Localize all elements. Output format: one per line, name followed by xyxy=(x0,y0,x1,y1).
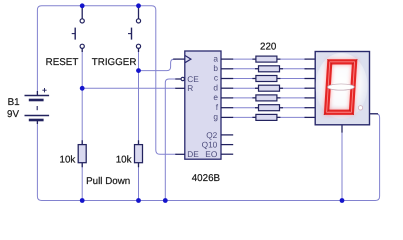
U1 pin stub Q2 xyxy=(221,134,233,136)
resistor R6 220 (line d) xyxy=(255,85,283,91)
junction V+ TRIGGER xyxy=(136,3,141,8)
resistor R9 220 (line g) xyxy=(252,114,280,120)
svg-text:b: b xyxy=(213,63,218,73)
resistor R1 10k body xyxy=(78,145,86,163)
DISP1 pin stub d xyxy=(305,87,316,89)
wire segment line c from U1 to DISP1 xyxy=(233,78,307,80)
U1 pin stub R xyxy=(175,87,185,89)
DISP1 pin stub e xyxy=(305,97,316,99)
segment corner miter seams xyxy=(324,59,357,115)
SW2 bottom terminal xyxy=(136,44,140,48)
U1 pin stub a xyxy=(221,58,233,60)
DISP1 digit 0 xyxy=(324,59,357,115)
segment e f lit xyxy=(324,59,333,115)
U1 pin stub EO xyxy=(221,153,233,155)
resistor R1 10k pull-down leads xyxy=(81,140,83,167)
junction ground display xyxy=(340,198,345,203)
svg-text:10k: 10k xyxy=(60,155,76,166)
IC U1 4026B body xyxy=(185,51,221,159)
wire CLK pin of U1 to TRIGGER node (stepped) xyxy=(139,59,177,71)
wire segment line f from U1 to DISP1 xyxy=(233,107,307,109)
svg-text:RESET: RESET xyxy=(46,57,79,68)
segment a lit xyxy=(327,59,357,64)
DISP1 pin stub c xyxy=(305,78,316,80)
svg-text:4026B: 4026B xyxy=(192,173,221,184)
svg-text:EO: EO xyxy=(205,149,218,159)
resistor R2 10k pull-down leads xyxy=(138,140,140,167)
svg-text:d: d xyxy=(213,82,218,92)
U1 pin stub CE xyxy=(175,78,181,80)
DISP1 common cathode stub bottom xyxy=(341,125,343,133)
svg-text:220: 220 xyxy=(260,42,277,53)
push switch SW1 RESET xyxy=(72,6,83,52)
U1 pin stub c xyxy=(221,78,233,80)
U1 pin stub Q10 xyxy=(221,144,233,146)
7-segment display DISP1 body xyxy=(315,52,369,125)
U1 pin stub g xyxy=(221,116,233,118)
svg-text:+: + xyxy=(42,85,47,95)
wire segment line g from U1 to DISP1 xyxy=(233,116,307,118)
push switch SW2 TRIGGER xyxy=(128,6,139,52)
resistor R3 220 (line a) xyxy=(252,56,280,62)
segment b c lit xyxy=(349,59,358,115)
battery B1 9V xyxy=(25,91,50,124)
wire segment line e from U1 to DISP1 xyxy=(233,97,307,99)
wire segment line a from U1 to DISP1 xyxy=(233,58,307,60)
svg-text:TRIGGER: TRIGGER xyxy=(92,57,137,68)
svg-text:g: g xyxy=(213,112,218,122)
svg-text:Q2: Q2 xyxy=(206,130,217,140)
SW1 top terminal xyxy=(80,19,84,23)
junction ground CE xyxy=(163,198,168,203)
junction RESET R node xyxy=(80,86,85,91)
wire TRIGGER branch vertical (switch SW2 to R2 to rail) xyxy=(138,51,140,200)
segment g unlit xyxy=(327,84,354,90)
wire display common pin down to ground rail xyxy=(341,132,343,201)
junction ground R2 xyxy=(136,198,141,203)
U1 pin stub DE xyxy=(175,153,185,155)
svg-text:Q10: Q10 xyxy=(202,140,218,150)
svg-text:B1: B1 xyxy=(8,97,20,108)
DISP1 pin stub a xyxy=(305,58,316,60)
wire R pin of U1 to RESET node xyxy=(82,87,176,89)
U1 pin stub CLK xyxy=(173,58,185,60)
junction V+ RESET xyxy=(80,3,85,8)
svg-text:9V: 9V xyxy=(7,109,19,120)
resistor R5 220 (line c) xyxy=(252,76,280,82)
DISP1 pin stub b xyxy=(305,68,316,70)
svg-text:10k: 10k xyxy=(116,155,132,166)
resistor R4 220 (line b) xyxy=(255,66,283,72)
svg-text:a: a xyxy=(213,53,218,63)
U1 pin stub d xyxy=(221,87,233,89)
junction TRIGGER CLK node xyxy=(136,68,141,73)
resistor R7 220 (line e) xyxy=(252,95,280,101)
wire 0V bottom rail from battery negative to display cathode xyxy=(37,114,379,201)
U1 clock input edge-trigger symbol xyxy=(185,55,191,62)
SW2 top terminal xyxy=(136,19,140,23)
SW1 bottom terminal xyxy=(80,44,84,48)
segment d lit xyxy=(324,110,354,115)
resistor R2 10k body xyxy=(135,145,143,163)
svg-text:DE: DE xyxy=(187,149,199,159)
wire segment line d from U1 to DISP1 xyxy=(233,87,307,89)
decimal point unlit xyxy=(358,106,362,110)
resistor R8 220 (line f) xyxy=(255,105,283,111)
svg-text:c: c xyxy=(214,73,218,83)
DISP1 common cathode stub right xyxy=(370,113,379,115)
DISP1 pin stub g xyxy=(305,116,316,118)
svg-text:R: R xyxy=(187,83,193,93)
U1 pin stub e xyxy=(221,97,233,99)
U1 CE inverting bubble xyxy=(181,77,184,80)
svg-text:Pull Down: Pull Down xyxy=(86,176,130,187)
wire V+ top rail from battery positive over switches down to DE pin xyxy=(37,6,176,155)
wire RESET branch vertical (switch SW1 to R1 to rail) xyxy=(81,51,83,200)
junction ground R1 xyxy=(80,198,85,203)
segment hot core highlight xyxy=(327,62,355,112)
U1 pin stub f xyxy=(221,107,233,109)
U1 pin stub b xyxy=(221,68,233,70)
wire segment line b from U1 to DISP1 xyxy=(233,68,307,70)
svg-text:e: e xyxy=(213,92,218,102)
wire CE pin of U1 down to ground rail xyxy=(165,79,176,200)
DISP1 pin stub f xyxy=(305,107,316,109)
